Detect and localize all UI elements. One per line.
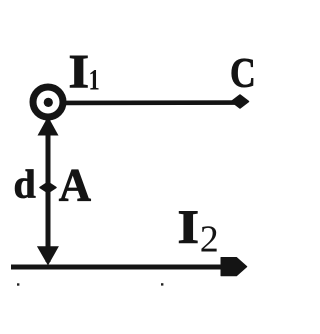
speck (scan dot, left) bbox=[17, 283, 19, 285]
label I2 bbox=[178, 201, 219, 260]
node C (end dot) bbox=[232, 95, 249, 108]
arrowhead I2 (current direction, right) bbox=[221, 258, 247, 276]
svg-text:I: I bbox=[69, 45, 90, 98]
wire I2: bottom horizontal line bbox=[11, 265, 232, 270]
arrowhead down bbox=[37, 246, 59, 265]
wire (vertical shaft) bbox=[46, 120, 51, 262]
svg-text:1: 1 bbox=[89, 62, 100, 96]
svg-text:A: A bbox=[59, 158, 91, 210]
dimension arrow d: vertical double-headed arrow bbox=[37, 117, 59, 266]
svg-text:C: C bbox=[230, 50, 256, 96]
node A (midpoint dot) bbox=[40, 182, 56, 192]
wire: top horizontal line from I1 to node C bbox=[63, 100, 240, 105]
svg-text:d: d bbox=[14, 162, 36, 207]
arrowhead up bbox=[38, 117, 59, 136]
speck (scan dot, right) bbox=[161, 283, 163, 285]
label I1 bbox=[69, 45, 100, 98]
wire I1: current-out-of-page symbol (circle with dot) bbox=[33, 87, 63, 117]
svg-text:I: I bbox=[178, 201, 199, 254]
svg-text:2: 2 bbox=[200, 219, 219, 261]
